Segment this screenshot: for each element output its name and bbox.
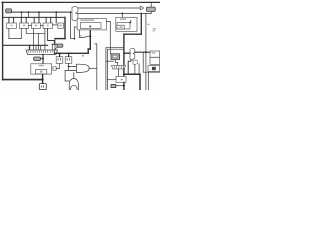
wire left frame [2,2,4,79]
wire collector y33 [26,32,45,34]
box U2 control unit [31,64,52,74]
node ground a [123,73,125,75]
text right labels [147,24,156,32]
fuse F8 top right [147,7,156,11]
wire thick into B2 [123,69,125,77]
wire F6 zigzag to bus [55,47,58,53]
wire horn lower input [65,67,76,71]
wire ground tee down [42,74,44,84]
wire stub x40.4 [40,45,42,50]
horn H1 [76,64,89,72]
wire C1 to U2 [42,54,44,63]
duct inner corner [107,49,124,90]
wire into B2 left [107,79,116,81]
wire stub x55 [54,39,56,50]
wire stub y61.2 [106,60,114,62]
wire f4 drop long [44,28,46,50]
fuse F5 [58,23,64,28]
node tie b [28,11,30,13]
wire bus1 [12,11,71,13]
wire stub f2a [20,17,22,23]
wire F8 stub bottom [150,11,152,13]
wire pin a [134,65,136,74]
box 49 [150,51,160,57]
wire lamp feed [65,70,69,81]
wire bottom line y72.2 [143,71,160,73]
wire P2 to horn [69,63,76,66]
wire feed y8 [78,7,140,9]
wire thick switch riser [89,30,91,49]
wire flag input thick [124,52,130,54]
text PU label [82,55,84,57]
box U2 inner relay [35,70,46,74]
node riser [70,11,72,13]
connector C1 trapezoid [26,50,58,54]
pin box U2 right [53,67,56,70]
duct outer corner [106,48,124,90]
wire stub x52.3 [51,44,53,50]
node F7 junction [42,58,44,60]
wire f1 drop [8,28,10,38]
wire FR out [106,21,110,53]
arrow connector [140,6,143,10]
box C right [148,66,160,72]
node f3b [38,11,40,13]
wire stub f4b [50,17,52,23]
node horn feed [68,66,70,68]
wire f1-f2 bottom run [9,38,21,40]
wire long drop x145.9 [145,13,147,90]
wire link f3-f4 [41,24,44,26]
wire bus corner drop [29,45,31,50]
wire pin b [138,64,140,74]
wire block bottom edge [55,38,65,40]
wire block right edge down [64,17,66,38]
wire f2 drop [20,28,22,38]
wire f2b drop [25,28,27,33]
wire F8 stub top [150,2,152,7]
wire ST step to C2 [115,59,117,65]
wire riser foot [71,27,78,39]
node switch junction [89,35,91,37]
wire stub f2b [25,17,27,23]
wire stub f5 from bus1 [55,12,57,23]
wire stair from f4 [48,28,57,44]
wire stub f4a [45,17,47,23]
wire drop x38 [37,33,39,50]
connector X1 grey plug top-left [6,9,12,13]
wire link f4-f5 [52,24,58,26]
wire thick y34.2 [124,33,141,35]
text s label [80,35,82,36]
wire riser from bus1 [70,12,72,39]
node P2 drop [68,52,70,54]
connector P1 [56,57,63,64]
wire right col left edge [142,53,144,72]
box FR fuel pump relay [77,18,106,30]
wire main bus y45.3 [3,44,48,46]
box B right [150,57,160,64]
box AEB [116,17,137,31]
wire top supply line [2,1,160,3]
wire stub f1b [13,17,15,23]
fuse F7 grey lower-left [34,57,41,61]
fuse F4 [43,23,52,28]
switch S blade [80,36,91,38]
wire C2 to B2 [117,69,119,77]
wire drop to P2 [68,53,70,56]
wire G3 to ground bus [116,85,124,87]
wire thick drop x123.9 [123,34,125,65]
box B2 [116,76,126,82]
node P1 drop [59,52,61,54]
node aeb feed [122,13,124,15]
wire stub x35.7 [35,45,37,50]
fuse F2 [19,23,28,28]
wire bus2 [3,16,65,18]
wire switch left drop [79,30,81,38]
node riser foot [74,38,76,40]
wire corner down right [140,13,142,34]
wire stub f3a [33,17,35,23]
wire tie a [21,12,23,17]
wire horn output [89,67,97,69]
wire thick bus y53.3 [55,52,89,54]
wire notch to P1 [56,63,59,68]
wire lamp stem [73,73,75,78]
lamp E1 bell [69,79,78,90]
wire feed y13.4 [78,12,151,14]
wire duct left [95,44,97,90]
node f5 [55,11,57,13]
connector C0 block edge [72,6,78,21]
connector B3 ground plug [39,84,46,90]
node tie a [21,11,23,13]
small connector under flag [133,60,138,65]
wire thick below B2 [123,82,125,90]
fuse F3 [31,23,40,28]
wire tie b [28,12,30,17]
wire switch step [88,49,90,53]
wire drop to P1 [59,53,61,56]
wire flag output [135,51,150,53]
fuse F6 grey mid [57,44,63,47]
wire F7 to junction [40,58,43,60]
fuse F1 [7,23,17,28]
wire stub f1a [8,17,10,23]
connector P2 [65,57,72,64]
node flag out [145,51,147,53]
relay G3 grey [111,84,116,87]
wire drop x33.9 [33,28,35,50]
wire right drop b [147,72,149,90]
connector C2 [112,65,126,69]
wire thick ground branch [124,74,140,90]
wire flag bottom stub [128,60,131,74]
relay ST grey [111,54,120,60]
node ground b [123,85,125,87]
node ground tee [42,79,44,81]
relay K2 flag connector [130,48,135,60]
wire drop into AEB [121,13,123,17]
wire link f2-f3 [29,24,32,26]
wire bottom ground run [3,79,43,81]
wire stub f3b from bus1 [38,12,40,23]
